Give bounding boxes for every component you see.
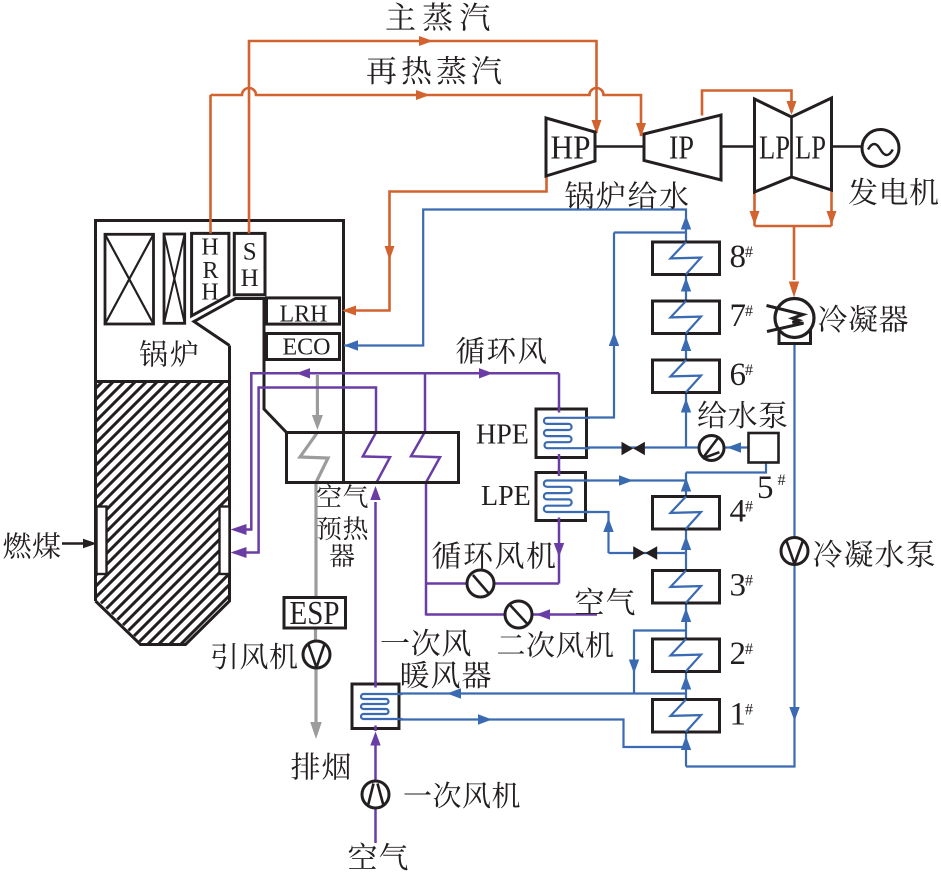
svg-text:#: # — [745, 702, 753, 719]
deaerator 5# box — [749, 433, 779, 463]
heater 7# coil — [671, 301, 702, 334]
feed pump suction line — [724, 446, 749, 448]
air preheater riser (secondary) — [424, 373, 427, 432]
generator 发电机 — [862, 130, 899, 167]
heater 8# box — [653, 242, 720, 275]
air preheater box 空气预热器 — [287, 433, 459, 483]
label 排烟 — [291, 752, 350, 780]
burner port left — [97, 507, 107, 575]
svg-text:4: 4 — [730, 494, 747, 530]
superheater SH box — [234, 233, 265, 294]
HPE coil — [544, 418, 590, 448]
recirculation fan 循环风机 — [467, 570, 494, 597]
svg-text:7: 7 — [730, 298, 747, 334]
svg-text:H: H — [241, 265, 259, 292]
label 锅炉 — [140, 340, 198, 367]
svg-text:#: # — [745, 573, 753, 590]
label 再热蒸汽 — [367, 56, 501, 84]
HPE LPE gas column — [558, 373, 561, 583]
svg-text:1: 1 — [730, 697, 747, 733]
LPE box — [536, 473, 586, 521]
label 冷凝水泵 — [814, 540, 934, 568]
flue gas line to stack 排烟 — [316, 375, 319, 416]
boiler outer wall 锅炉 — [96, 221, 344, 602]
svg-text:2: 2 — [730, 636, 747, 672]
condenser hotwell — [779, 329, 811, 344]
heater 8# coil — [671, 242, 702, 275]
condensate to 1# heater — [685, 732, 687, 767]
svg-text:IP: IP — [669, 130, 694, 167]
reheater HRH box — [192, 233, 229, 315]
burner port right — [220, 507, 230, 575]
heater 3# coil — [671, 571, 702, 604]
svg-text:LRH: LRH — [280, 302, 328, 328]
label 二次风机 — [498, 631, 613, 658]
label 空气 bottom — [349, 843, 408, 871]
LPE outlet line — [586, 479, 687, 481]
economizer ECO box — [267, 334, 340, 360]
main steam line 主蒸汽 — [249, 41, 597, 233]
air warmer inlet line — [399, 692, 686, 694]
condensate riser 1#-2# — [685, 671, 687, 700]
condenser 冷凝器 — [775, 299, 814, 338]
label 空气 secondary — [576, 588, 635, 616]
recirculation fan line — [425, 582, 559, 585]
cold reheat line HP to LRH — [344, 176, 547, 311]
feed pump discharge line — [587, 446, 700, 448]
heater 2# box — [653, 639, 720, 672]
air warmer coil — [361, 694, 402, 719]
turbine shaft — [595, 145, 862, 148]
condensate riser 2#-3# — [685, 603, 687, 640]
air warmer purple border stubs — [374, 681, 377, 731]
HPE LPE gas column border stubs — [558, 407, 561, 524]
svg-text:3: 3 — [730, 568, 747, 604]
label 燃煤 — [4, 532, 61, 559]
label 一次风暖风器 — [381, 629, 470, 657]
furnace hatched area — [97, 383, 228, 643]
label 空气预热器 — [317, 484, 368, 508]
label 引风机 — [212, 643, 297, 670]
secondary air line 空气 — [426, 613, 597, 616]
heater 4# box — [653, 497, 720, 530]
svg-text:#: # — [745, 303, 753, 320]
deaerator inlet line 5# — [686, 463, 766, 497]
heater 6# coil — [671, 360, 702, 393]
air warmer outlet line — [399, 720, 686, 748]
primary air fan 一次风机 — [362, 781, 389, 808]
feed pump 给水泵 — [699, 436, 724, 461]
svg-text:#: # — [778, 472, 786, 489]
svg-text:#: # — [745, 244, 753, 261]
air heater bypass line — [634, 631, 686, 694]
HP turbine — [546, 118, 595, 176]
condensate riser 3#-4# — [685, 529, 687, 571]
valve (LPE line) — [633, 546, 657, 560]
label 循环风 — [456, 337, 546, 364]
label 主蒸汽 — [386, 2, 489, 30]
IP exhaust to LP line — [702, 91, 792, 116]
HPE outlet line — [587, 233, 687, 418]
condensate main line — [686, 344, 795, 767]
induced draft fan 引风机 — [303, 641, 330, 668]
heater 2# coil — [671, 639, 702, 672]
svg-text:HPE: HPE — [476, 420, 529, 451]
label 发电机 — [849, 178, 938, 206]
recirculated gas line 循环风 — [234, 373, 559, 529]
heater 4# coil — [671, 497, 702, 530]
svg-text:ESP: ESP — [290, 595, 340, 632]
svg-text:#: # — [745, 362, 753, 379]
label 锅炉给水 — [565, 181, 688, 209]
heater 7# box — [653, 301, 720, 334]
low-temp reheater LRH box — [267, 298, 340, 324]
LP turbine (double flow) — [755, 98, 832, 192]
secondary air fan 二次风机 — [505, 601, 532, 628]
svg-text:#: # — [745, 499, 753, 516]
svg-text:5: 5 — [757, 470, 774, 506]
svg-text:#: # — [745, 641, 753, 658]
valve (feed pump line) — [622, 442, 645, 455]
svg-text:S: S — [243, 239, 257, 266]
IP turbine — [644, 115, 721, 180]
ESP box — [284, 598, 346, 629]
svg-text:LPE: LPE — [481, 481, 531, 512]
reheat steam line 再热蒸汽 — [209, 95, 212, 233]
LPE coil — [544, 481, 589, 513]
svg-text:HP: HP — [551, 130, 591, 167]
label 一次风机 — [404, 781, 519, 808]
air warmer box 一次风暖风器 — [352, 684, 399, 729]
LP exhaust lines to condenser — [755, 190, 832, 280]
heater 3# box — [653, 571, 720, 604]
heater 6# box — [653, 360, 720, 393]
label 冷凝器 — [819, 305, 908, 333]
LPE inlet line — [586, 512, 687, 553]
svg-text:LP: LP — [759, 130, 790, 167]
svg-text:6: 6 — [730, 357, 747, 393]
feedwater riser through heaters — [685, 275, 687, 448]
svg-text:8: 8 — [730, 239, 747, 275]
condensate pump 冷凝水泵 — [781, 538, 808, 565]
heater 1# box — [653, 700, 720, 733]
boiler feedwater line 锅炉给水 — [344, 210, 686, 346]
svg-text:LP: LP — [795, 130, 826, 167]
svg-text:H: H — [201, 235, 218, 261]
label 循环风机 — [432, 541, 555, 569]
svg-text:ECO: ECO — [283, 335, 331, 361]
svg-text:H: H — [201, 280, 218, 306]
primary air line — [374, 736, 377, 843]
heater 1# coil — [671, 700, 702, 733]
coal feed arrow 燃煤 — [62, 542, 88, 545]
heat surface box with X (large) — [105, 234, 154, 324]
HPE box — [536, 409, 587, 458]
heat surface box with X (narrow) — [164, 234, 185, 323]
label 给水泵 — [698, 401, 787, 429]
